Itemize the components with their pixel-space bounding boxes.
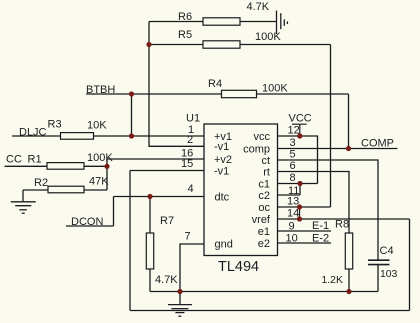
node R3/pin1 junction [129,133,134,138]
svg-text:ct: ct [261,155,270,167]
svg-text:COMP: COMP [361,138,394,150]
wire DLJC/pin1 row [12,135,204,137]
wire ground rail A [150,291,378,293]
svg-text:4.7K: 4.7K [247,1,270,13]
wire R1-R2 vertical [106,159,108,190]
node gnd rail junction [177,289,182,294]
resistor R4 body [222,90,257,97]
svg-text:103: 103 [380,269,398,280]
svg-text:CC: CC [6,154,22,166]
svg-text:oc: oc [258,202,270,214]
node pin13 junction [297,204,302,209]
wire R7 top lead [149,197,151,234]
node R5 junction [146,42,151,47]
ground bottom (IC gnd) [168,305,192,317]
svg-text:+v2: +v2 [214,154,232,166]
svg-text:7: 7 [185,231,191,243]
svg-text:100K: 100K [87,152,113,164]
svg-text:100K: 100K [255,31,281,43]
svg-text:c1: c1 [258,179,270,191]
ground left (R2) [11,202,36,213]
resistor R8 body [345,233,352,269]
svg-text:R3: R3 [48,119,62,131]
wire R4 to COMP vertical [348,94,350,149]
wire DCON vertical [113,197,115,227]
svg-text:TL494: TL494 [218,259,259,275]
svg-text:DLJC: DLJC [19,127,47,139]
svg-text:c2: c2 [258,190,270,202]
resistor R1 body [47,163,84,170]
resistor R2 body [48,186,84,193]
wire COMP row pin3 [278,148,398,150]
wire pin11 row [278,194,301,196]
svg-text:13: 13 [287,196,299,208]
node pin14 junction [297,216,302,221]
node R8 rail junction [346,289,351,294]
svg-text:100K: 100K [262,83,288,95]
svg-text:4.7K: 4.7K [155,274,178,286]
wire R2 ground stub [22,190,24,202]
wire pin10 row [278,242,332,244]
capacitor C4 plates [368,260,390,264]
svg-text:R5: R5 [178,29,192,41]
svg-text:dtc: dtc [215,192,230,204]
wire pin13 row [278,206,331,208]
svg-text:10K: 10K [87,120,107,132]
svg-text:4: 4 [188,183,194,195]
wire pin15 column [129,171,131,311]
resistor R3 body [61,133,94,140]
wire gnd symbol stub [179,292,181,305]
ground top-right (rotated) [277,11,288,35]
svg-text:5: 5 [290,149,296,161]
svg-text:8: 8 [290,172,296,184]
wire R5 vertical [330,45,332,208]
wire pin8 row [278,183,318,185]
svg-text:9: 9 [289,221,295,233]
svg-text:R6: R6 [178,11,192,23]
node BTBH junction [129,91,134,96]
svg-text:e1: e1 [258,226,270,238]
svg-text:E-1: E-1 [312,220,329,232]
svg-text:DCON: DCON [71,216,103,228]
svg-text:2: 2 [187,134,193,146]
wire BTBH vertical [131,94,133,136]
wire R6 row [149,21,277,23]
wire BTBH/R4 row [86,93,349,95]
svg-text:-v1: -v1 [214,141,229,153]
wire CC/R1 row [5,165,108,167]
wire tie pin8-pin11 [299,184,301,196]
wire R7 bottom lead [149,269,151,292]
svg-text:15: 15 [181,158,193,170]
resistor R6 body [203,18,240,25]
wire pin12 row and VCC column [278,136,318,184]
resistor R5 body [203,41,240,48]
wire C4 bottom lead [377,265,379,292]
wire pin5 row and C4 column [278,160,379,260]
wire pin6 row and R8 column [278,172,350,234]
wire R2 row [23,189,107,191]
svg-text:R7: R7 [160,215,174,227]
node COMP junction [346,146,351,151]
wire vref pin14 row [278,218,410,220]
wire left column to pin2 [149,22,204,147]
wire pin16 row [107,158,204,160]
svg-text:comp: comp [243,144,270,156]
svg-text:3: 3 [290,137,296,149]
wire right edge vertical [409,219,411,311]
svg-text:rt: rt [263,167,270,179]
svg-text:R1: R1 [28,154,42,166]
svg-text:10: 10 [286,233,298,245]
wire pin7 gnd [180,244,204,292]
svg-text:VCC: VCC [289,113,312,125]
wire bottom rail B [130,310,410,312]
svg-text:R2: R2 [34,177,48,189]
svg-text:U1: U1 [186,113,200,125]
node VCC junction [297,133,302,138]
svg-text:gnd: gnd [215,239,233,251]
svg-text:14: 14 [287,208,299,220]
wire tie pin13-pin14 [299,207,301,219]
node R1 junction [104,164,109,169]
svg-text:BTBH: BTBH [86,84,115,96]
svg-text:vref: vref [252,214,271,226]
wire pin15 row [130,170,204,172]
svg-text:47K: 47K [89,176,109,188]
wire pin4 row [114,196,205,198]
svg-text:vcc: vcc [254,131,271,143]
op-amp U1 TL494 IC box [204,124,278,256]
svg-text:1.2K: 1.2K [322,275,343,286]
wire R8 bottom lead [348,269,350,292]
svg-text:-v1: -v1 [214,166,229,178]
svg-text:e2: e2 [258,238,270,250]
wire pin9 row [278,230,332,232]
svg-text:E-2: E-2 [312,233,329,245]
wire DCON row [66,225,114,227]
svg-text:R8: R8 [335,219,349,231]
node R7 top junction [147,194,152,199]
svg-text:12: 12 [288,125,300,137]
power VCC symbol [292,124,307,136]
svg-text:R4: R4 [208,78,222,90]
svg-text:C4: C4 [380,245,394,257]
svg-text:6: 6 [290,160,296,172]
wire R5 row [149,44,331,46]
resistor R7 body [146,233,153,269]
node pin8 junction [297,181,302,186]
